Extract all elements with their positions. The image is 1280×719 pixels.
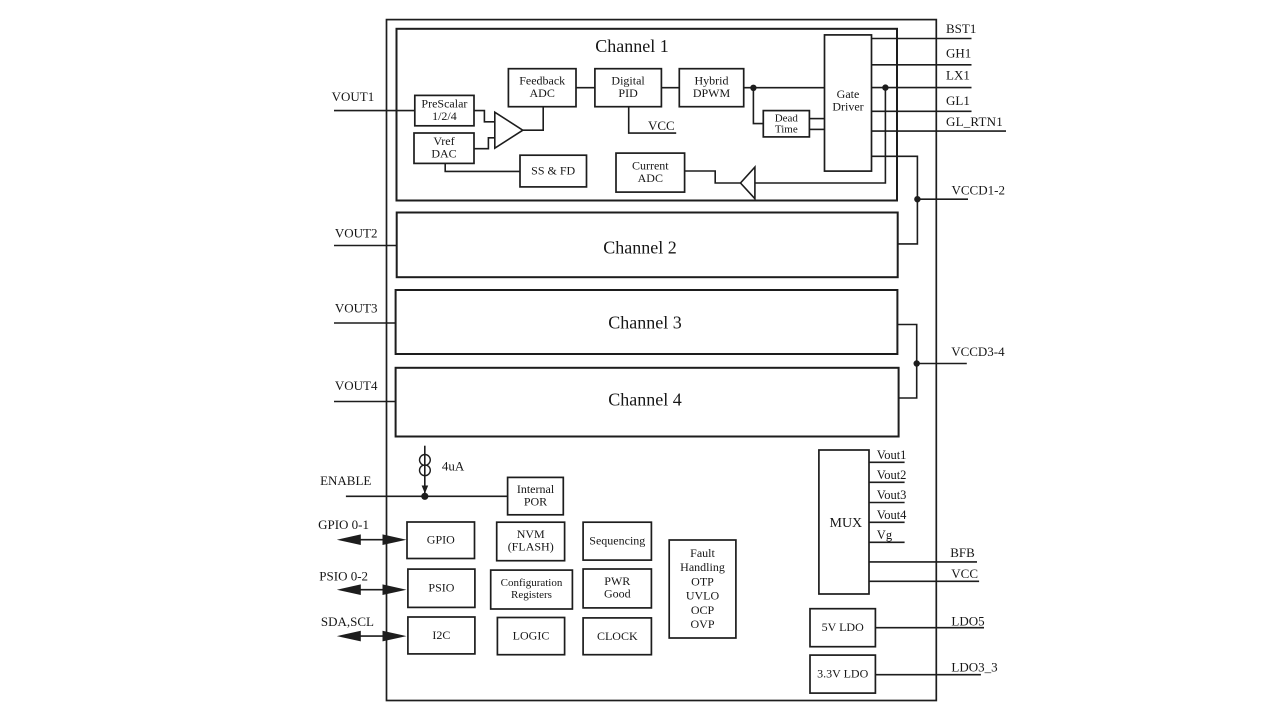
svg-text:Fault: Fault: [690, 546, 715, 560]
svg-text:Vout4: Vout4: [877, 508, 907, 522]
wire MUX input Vout4: [869, 521, 905, 523]
wire pin VCC: [869, 580, 979, 582]
svg-text:4uA: 4uA: [442, 458, 465, 473]
wire Current ADC to sense amp output: [685, 171, 741, 183]
block CLOCK: [583, 618, 651, 655]
svg-text:Handling: Handling: [680, 560, 725, 574]
node junction ENABLE wire: [421, 493, 428, 500]
svg-text:PSIO 0-2: PSIO 0-2: [319, 568, 368, 583]
wire MUX input Vg: [869, 541, 905, 543]
wire pin GL_RTN1: [872, 130, 1007, 132]
node junction LX1 sense tap: [882, 84, 888, 90]
wire pin LDO5: [875, 627, 984, 629]
block Gate Driver U-GD: [825, 35, 872, 171]
svg-text:VCC: VCC: [648, 118, 675, 133]
svg-text:UVLO: UVLO: [686, 589, 720, 603]
block Current ADC: [616, 153, 685, 192]
svg-text:VOUT2: VOUT2: [335, 225, 378, 240]
block Digital PID: [595, 69, 662, 107]
wire error amp to Feedback ADC: [523, 107, 543, 131]
wire MUX input Vout1: [869, 461, 905, 463]
svg-text:GPIO: GPIO: [427, 533, 455, 547]
svg-text:VOUT4: VOUT4: [335, 378, 378, 393]
block GPIO: [407, 522, 475, 559]
wire pin GH1: [872, 64, 972, 66]
svg-text:OTP: OTP: [691, 575, 714, 589]
wire bidirectional arrow PSIO: [337, 584, 407, 595]
svg-text:MUX: MUX: [830, 516, 863, 531]
op-amp error amplifier A1: [495, 112, 523, 148]
svg-text:I2C: I2C: [432, 628, 450, 642]
svg-text:(FLASH): (FLASH): [508, 540, 554, 554]
svg-text:Time: Time: [775, 124, 798, 136]
block NVM (FLASH): [497, 522, 565, 561]
svg-text:CLOCK: CLOCK: [597, 629, 638, 643]
block Internal POR: [508, 477, 564, 514]
wire pin BFB: [869, 561, 977, 563]
svg-text:ADC: ADC: [530, 86, 555, 100]
svg-text:LDO3_3: LDO3_3: [951, 660, 997, 675]
svg-text:Driver: Driver: [832, 100, 863, 114]
svg-text:LDO5: LDO5: [951, 614, 984, 629]
wire sense amp input from LX1: [755, 88, 886, 183]
block Sequencing: [583, 522, 651, 560]
wire ENABLE input: [346, 495, 508, 497]
channel 1 block: [397, 29, 898, 201]
svg-text:DPWM: DPWM: [693, 86, 731, 100]
wire pin VCCD3-4: [917, 363, 967, 365]
svg-text:SS & FD: SS & FD: [531, 164, 575, 178]
wire pin VCCD1-2: [917, 198, 968, 200]
wire Digital PID to Hybrid DPWM: [661, 87, 679, 89]
block MUX: [819, 450, 869, 594]
wire bidirectional arrow GPIO: [337, 534, 407, 545]
svg-text:Channel 1: Channel 1: [595, 36, 669, 56]
channel 2 block: [397, 213, 898, 278]
wire pin LDO3_3: [875, 674, 981, 676]
svg-text:Channel 2: Channel 2: [603, 238, 677, 258]
block PWR Good: [583, 569, 651, 608]
block I2C: [408, 617, 475, 654]
wire Vref DAC to SS &amp; FD: [445, 163, 520, 171]
wire PreScalar to error amp: [474, 111, 495, 122]
svg-text:OCP: OCP: [691, 603, 715, 617]
svg-text:VCCD1-2: VCCD1-2: [952, 183, 1005, 198]
channel 4 block: [396, 368, 899, 437]
wire VCCD3-4 net from Channel 3 to Channel 4: [897, 325, 916, 399]
svg-text:Good: Good: [604, 586, 631, 600]
svg-text:3.3V LDO: 3.3V LDO: [817, 667, 868, 681]
wire Dead Time to Gate Driver upper: [809, 118, 824, 120]
op-amp current sense amp A2: [741, 167, 755, 199]
wire Vref DAC to error amp: [474, 138, 495, 149]
wire Feedback ADC to Digital PID: [576, 87, 595, 89]
wire VCCD1-2 net from Gate Driver to Channel 2: [872, 156, 918, 244]
svg-text:PID: PID: [618, 86, 638, 100]
wire MUX input Vout2: [869, 481, 905, 483]
wire MUX input Vout3: [869, 502, 905, 504]
svg-text:BST1: BST1: [946, 21, 976, 36]
svg-text:5V LDO: 5V LDO: [822, 620, 864, 634]
svg-text:LOGIC: LOGIC: [513, 629, 550, 643]
wire Digital PID VCC stub: [629, 107, 677, 133]
node junction VCCD3-4: [914, 360, 920, 366]
block Hybrid DPWM: [679, 69, 743, 107]
wire pin BST1: [872, 38, 972, 40]
svg-text:OVP: OVP: [690, 617, 714, 631]
node junction VCCD1-2: [914, 196, 920, 202]
block Configuration Registers: [491, 570, 573, 609]
block Dead Time: [763, 111, 809, 137]
svg-text:Channel 3: Channel 3: [608, 313, 682, 333]
block Fault Handling OTP UVLO OCP OVP: [669, 540, 736, 638]
svg-text:VOUT1: VOUT1: [332, 89, 375, 104]
block SS &amp; FD: [520, 155, 587, 187]
block Feedback ADC: [508, 69, 576, 107]
svg-text:Registers: Registers: [511, 589, 552, 601]
svg-text:Vg: Vg: [877, 528, 893, 542]
block 5V LDO: [810, 609, 875, 647]
svg-text:POR: POR: [524, 495, 547, 509]
wire VOUT1 input: [334, 110, 415, 112]
svg-text:Vout2: Vout2: [877, 468, 907, 482]
svg-text:VCC: VCC: [951, 566, 978, 581]
wire junction to Dead Time: [753, 88, 763, 124]
svg-text:BFB: BFB: [950, 545, 975, 560]
current source I1 4uA: [420, 446, 431, 497]
block PreScalar 1/2/4: [415, 95, 474, 125]
svg-text:Channel 4: Channel 4: [608, 389, 682, 409]
svg-text:VOUT3: VOUT3: [335, 301, 378, 316]
block PSIO: [408, 569, 475, 607]
svg-text:GPIO 0-1: GPIO 0-1: [318, 517, 369, 532]
chip outer boundary: [387, 20, 937, 701]
svg-text:Vout3: Vout3: [877, 488, 907, 502]
svg-text:Sequencing: Sequencing: [589, 534, 645, 548]
wire pin LX1: [872, 87, 972, 89]
svg-text:SDA,SCL: SDA,SCL: [321, 614, 374, 629]
svg-text:GL1: GL1: [946, 93, 970, 108]
svg-text:GL_RTN1: GL_RTN1: [946, 114, 1003, 129]
svg-text:ENABLE: ENABLE: [320, 473, 371, 488]
block LOGIC: [497, 618, 564, 655]
node junction DPWM output: [750, 85, 756, 91]
svg-text:GH1: GH1: [946, 45, 971, 60]
svg-text:PSIO: PSIO: [428, 581, 454, 595]
svg-text:DAC: DAC: [431, 147, 456, 161]
wire VOUT3 input: [334, 322, 396, 324]
wire bidirectional arrow I2C: [337, 631, 407, 642]
wire pin GL1: [872, 110, 972, 112]
wire Dead Time to Gate Driver lower: [809, 128, 824, 130]
channel 3 block: [396, 290, 898, 354]
svg-text:Configuration: Configuration: [501, 577, 563, 589]
block Vref DAC: [414, 133, 474, 163]
svg-text:LX1: LX1: [946, 67, 970, 82]
block 3.3V LDO: [810, 655, 875, 693]
svg-text:VCCD3-4: VCCD3-4: [951, 344, 1005, 359]
wire VOUT4 input: [334, 401, 396, 403]
wire VOUT2 input: [334, 245, 397, 247]
svg-text:ADC: ADC: [638, 171, 663, 185]
svg-text:1/2/4: 1/2/4: [432, 109, 457, 123]
svg-text:Vout1: Vout1: [877, 448, 907, 462]
wire Hybrid DPWM to Gate Driver: [744, 87, 825, 89]
